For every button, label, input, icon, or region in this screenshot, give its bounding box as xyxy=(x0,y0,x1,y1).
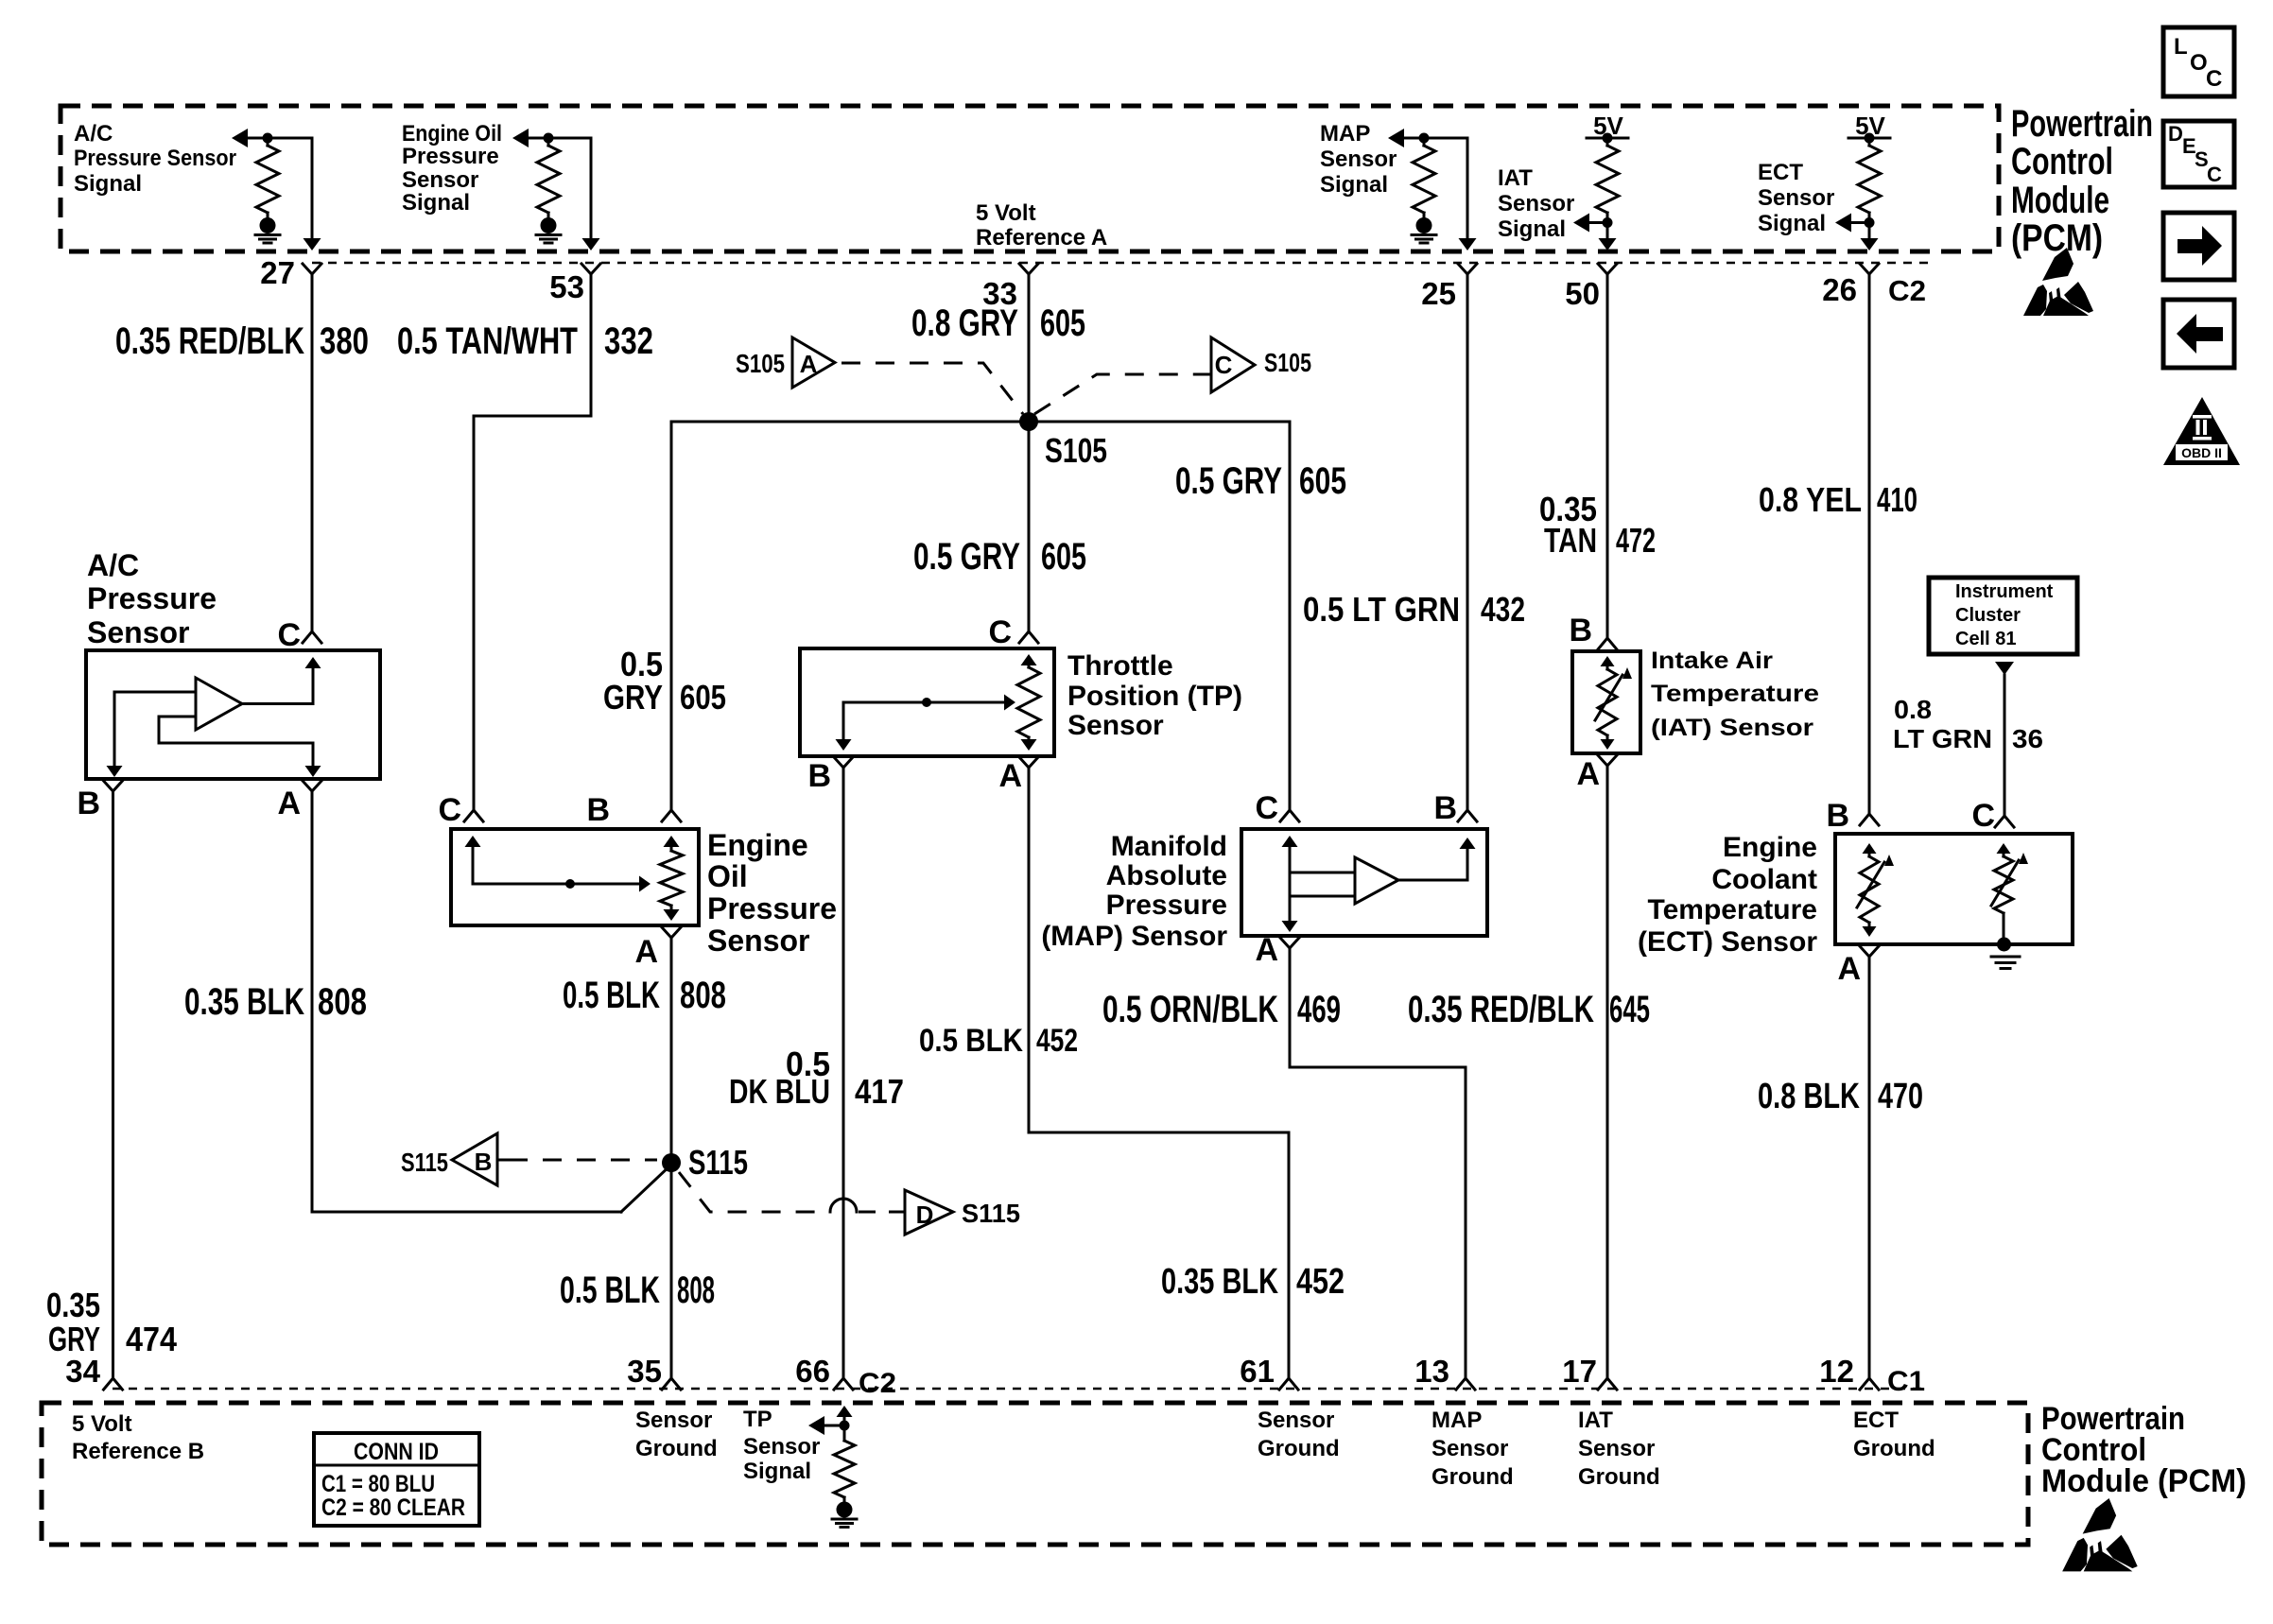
pin 61 xyxy=(1240,1354,1298,1390)
svg-text:Cluster: Cluster xyxy=(1955,605,2021,626)
svg-text:472: 472 xyxy=(1616,521,1656,560)
svg-text:0.5 LT GRN: 0.5 LT GRN xyxy=(1303,590,1460,629)
svg-text:Sensor: Sensor xyxy=(635,1408,712,1433)
svg-text:B: B xyxy=(1433,790,1457,826)
svg-text:0.35: 0.35 xyxy=(46,1286,100,1324)
TP sensor internals potentiometer xyxy=(836,654,1041,751)
PCM top dashed box xyxy=(61,106,1999,251)
svg-text:A: A xyxy=(634,934,658,970)
svg-text:A: A xyxy=(998,758,1022,794)
svg-text:C: C xyxy=(2207,163,2222,186)
svg-text:Temperature: Temperature xyxy=(1651,681,1819,707)
svg-text:IAT: IAT xyxy=(1578,1408,1613,1433)
wire 469 MAP A to pin13 xyxy=(1290,949,1466,1378)
IAT sensor box xyxy=(1572,651,1640,753)
IAT pull-up resistor xyxy=(1596,138,1619,239)
svg-text:S115: S115 xyxy=(962,1199,1020,1228)
svg-text:A/C: A/C xyxy=(74,121,113,147)
label Powertrain Control Module (PCM) bottom xyxy=(2041,1401,2247,1499)
svg-text:C2 = 80 CLEAR: C2 = 80 CLEAR xyxy=(321,1494,465,1521)
label 0.5 LT GRN 432 xyxy=(1303,590,1525,629)
wire 808 A/C A to splice S115 xyxy=(312,791,671,1212)
svg-text:Control: Control xyxy=(2011,141,2113,182)
svg-text:(PCM): (PCM) xyxy=(2011,217,2103,259)
svg-text:Sensor: Sensor xyxy=(1498,191,1574,216)
label 0.5 BLK 808 upper xyxy=(563,975,726,1016)
svg-text:(ECT) Sensor: (ECT) Sensor xyxy=(1638,926,1817,958)
svg-text:Engine: Engine xyxy=(707,828,808,862)
svg-text:0.8 GRY: 0.8 GRY xyxy=(911,302,1018,344)
wire S105 branch to MAP C xyxy=(1029,422,1290,810)
svg-text:417: 417 xyxy=(855,1072,904,1111)
pin A A/C sensor xyxy=(277,781,321,821)
svg-text:C: C xyxy=(1255,790,1278,826)
svg-text:Coolant: Coolant xyxy=(1711,864,1817,895)
svg-text:OBD II: OBD II xyxy=(2181,445,2222,460)
pin 35 xyxy=(627,1354,681,1390)
pin A MAP sensor xyxy=(1255,932,1299,968)
pin C engine oil sensor xyxy=(438,792,483,828)
wire 470 ECT A to pin12 xyxy=(1868,958,1871,1378)
engine oil sensor internals potentiometer xyxy=(465,836,684,921)
svg-text:(MAP) Sensor: (MAP) Sensor xyxy=(1041,921,1227,952)
pin 17 xyxy=(1562,1354,1617,1390)
label MAP Sensor Ground xyxy=(1431,1408,1514,1490)
label IAT Sensor Signal xyxy=(1498,165,1574,242)
label 0.8 LT GRN 36 xyxy=(1893,695,2043,753)
back arrow icon xyxy=(2163,300,2234,368)
label ECT Sensor Signal xyxy=(1758,160,1834,236)
wire 417 TP B to pin66 xyxy=(842,769,845,1378)
svg-text:432: 432 xyxy=(1481,590,1525,629)
svg-text:B: B xyxy=(77,786,100,821)
pin C ECT sensor xyxy=(1971,798,2014,834)
svg-text:66: 66 xyxy=(795,1354,830,1389)
label Sensor Ground pin61 xyxy=(1258,1408,1340,1461)
svg-text:Instrument: Instrument xyxy=(1955,581,2054,602)
svg-text:474: 474 xyxy=(126,1320,177,1358)
S115 reference triangle D xyxy=(679,1172,1020,1235)
svg-text:5 Volt: 5 Volt xyxy=(976,200,1036,226)
svg-text:A: A xyxy=(277,786,301,821)
svg-text:27: 27 xyxy=(260,255,295,290)
svg-text:605: 605 xyxy=(1041,536,1086,578)
svg-text:Sensor: Sensor xyxy=(743,1434,820,1460)
ESD symbol bottom xyxy=(2062,1498,2138,1571)
svg-text:Pressure Sensor: Pressure Sensor xyxy=(74,146,236,171)
svg-text:B: B xyxy=(807,758,831,794)
svg-text:C: C xyxy=(1971,798,1995,834)
top connector row dotted line xyxy=(312,262,1929,265)
label 0.5 DK BLU 417 xyxy=(729,1045,904,1111)
svg-text:380: 380 xyxy=(320,320,369,362)
svg-text:C1: C1 xyxy=(1887,1366,1925,1397)
A/C pressure signal resistor xyxy=(232,129,312,217)
label Manifold Absolute Pressure (MAP) Sensor xyxy=(1041,831,1227,952)
label Engine Oil Pressure Sensor Signal xyxy=(402,121,502,216)
svg-text:0.5 TAN/WHT: 0.5 TAN/WHT xyxy=(397,320,578,362)
label TP Sensor Signal xyxy=(743,1407,820,1484)
svg-text:D: D xyxy=(916,1201,934,1229)
svg-text:0.5 GRY: 0.5 GRY xyxy=(1175,460,1282,502)
svg-text:O: O xyxy=(2190,50,2208,76)
svg-text:Sensor: Sensor xyxy=(1320,147,1397,172)
TP sensor signal resistor to ground xyxy=(808,1406,855,1502)
bottom connector row dotted line xyxy=(113,1388,1929,1391)
wire S105 branch to engine oil B xyxy=(671,422,1029,810)
svg-text:34: 34 xyxy=(65,1354,100,1389)
label 0.5 BLK 808 lower xyxy=(560,1270,715,1311)
label 0.8 YEL 410 xyxy=(1759,480,1917,519)
label A/C Pressure Sensor xyxy=(87,548,217,649)
OBD II icon xyxy=(2163,397,2240,465)
label 5 Volt Reference B xyxy=(72,1411,204,1464)
svg-text:Module: Module xyxy=(2011,180,2109,221)
svg-text:Signal: Signal xyxy=(1758,211,1826,236)
wire pin27 drop inside PCM xyxy=(304,138,321,251)
svg-text:B: B xyxy=(1826,798,1849,834)
label MAP Sensor Signal xyxy=(1320,121,1397,198)
LOC icon xyxy=(2163,27,2234,96)
label IAT Sensor Ground xyxy=(1578,1408,1660,1490)
S105 reference triangle C xyxy=(1034,337,1311,414)
svg-text:808: 808 xyxy=(677,1270,715,1311)
label Powertrain Control Module (PCM) top xyxy=(2011,103,2153,259)
svg-text:Powertrain: Powertrain xyxy=(2011,103,2153,145)
svg-text:A: A xyxy=(1837,951,1861,987)
svg-text:B: B xyxy=(1569,613,1592,648)
svg-text:A: A xyxy=(800,350,818,378)
wire pin25 drop inside PCM xyxy=(1459,138,1477,251)
ECT pull-up resistor xyxy=(1858,138,1881,239)
svg-text:Signal: Signal xyxy=(1498,216,1566,242)
svg-text:0.35 RED/BLK: 0.35 RED/BLK xyxy=(1408,989,1594,1030)
ECT signal junction and arrow xyxy=(1835,214,1879,251)
pin 25 xyxy=(1421,264,1477,311)
svg-text:DK BLU: DK BLU xyxy=(729,1072,830,1111)
svg-text:C: C xyxy=(438,792,461,828)
splice S105 xyxy=(1019,412,1107,470)
label Engine Coolant Temperature (ECT) Sensor xyxy=(1638,832,1817,958)
svg-text:Module (PCM): Module (PCM) xyxy=(2041,1463,2247,1499)
MAP sensor internals amplifier xyxy=(1282,836,1476,932)
pin 34 xyxy=(65,1354,122,1390)
label Throttle Position (TP) Sensor xyxy=(1067,650,1242,741)
svg-text:Pressure: Pressure xyxy=(402,144,499,169)
ECT 5V supply xyxy=(1848,112,1890,144)
ground engine oil resistor xyxy=(536,217,561,243)
wire pin53 drop inside PCM xyxy=(582,138,600,251)
svg-text:A: A xyxy=(1255,932,1278,968)
svg-text:C2: C2 xyxy=(1888,274,1926,307)
label 0.5 GRY 605 engine oil branch xyxy=(603,645,726,717)
label 0.5 ORN/BLK 469 xyxy=(1102,989,1341,1030)
svg-text:Pressure: Pressure xyxy=(87,581,217,615)
svg-text:Pressure: Pressure xyxy=(1106,890,1227,921)
pin 66 connector C2 xyxy=(795,1354,896,1399)
label ECT Ground xyxy=(1853,1408,1935,1461)
svg-text:Absolute: Absolute xyxy=(1106,860,1227,891)
svg-text:Sensor: Sensor xyxy=(1758,185,1834,211)
svg-text:C: C xyxy=(2206,66,2222,92)
svg-text:25: 25 xyxy=(1421,276,1456,311)
svg-text:Sensor: Sensor xyxy=(87,615,189,649)
svg-text:0.5 BLK: 0.5 BLK xyxy=(563,975,660,1016)
ECT thermistor to gauge xyxy=(1991,843,2028,940)
wire 605 pin33 to S105 to TP sensor C xyxy=(1028,274,1031,631)
ESD symbol top xyxy=(2023,248,2093,316)
svg-text:Intake Air: Intake Air xyxy=(1651,648,1773,674)
svg-text:Pressure: Pressure xyxy=(707,891,837,925)
pin 33 xyxy=(982,264,1038,311)
svg-text:Sensor: Sensor xyxy=(1067,710,1164,741)
label Intake Air Temperature (IAT) Sensor xyxy=(1651,648,1819,741)
pin A ECT sensor xyxy=(1837,946,1879,987)
svg-text:17: 17 xyxy=(1562,1354,1597,1389)
svg-text:MAP: MAP xyxy=(1431,1408,1482,1433)
svg-text:Oil: Oil xyxy=(707,859,748,893)
MAP sensor box xyxy=(1241,829,1487,936)
svg-text:S115: S115 xyxy=(688,1143,748,1182)
svg-text:808: 808 xyxy=(680,975,726,1016)
wire 474 A/C B to pin34 xyxy=(112,791,114,1378)
svg-text:(IAT) Sensor: (IAT) Sensor xyxy=(1651,715,1813,741)
wire 410 pin26 to ECT B xyxy=(1868,274,1871,814)
svg-text:12: 12 xyxy=(1819,1354,1854,1389)
pin 50 xyxy=(1565,264,1617,311)
svg-text:MAP: MAP xyxy=(1320,121,1370,147)
svg-text:Temperature: Temperature xyxy=(1647,894,1817,925)
svg-text:Manifold: Manifold xyxy=(1111,831,1227,862)
svg-text:Signal: Signal xyxy=(74,171,142,197)
svg-text:Sensor: Sensor xyxy=(1578,1436,1655,1461)
label Sensor Ground pin35 xyxy=(635,1408,718,1461)
A/C pressure sensor box xyxy=(86,650,380,779)
forward arrow icon xyxy=(2163,213,2234,280)
wire 380 pin27 to A/C sensor C xyxy=(311,274,314,631)
label 0.8 GRY 605 xyxy=(911,302,1085,344)
svg-text:Ground: Ground xyxy=(635,1436,718,1461)
pin C MAP sensor xyxy=(1255,790,1299,826)
label A/C Pressure Sensor Signal xyxy=(74,121,236,197)
svg-text:Throttle: Throttle xyxy=(1067,650,1173,682)
svg-text:A: A xyxy=(1576,756,1600,792)
pin A engine oil sensor xyxy=(634,927,681,970)
svg-text:470: 470 xyxy=(1878,1077,1923,1116)
pin B MAP sensor xyxy=(1433,790,1477,826)
S115 reference triangle B xyxy=(401,1133,657,1185)
svg-text:GRY: GRY xyxy=(603,678,663,717)
label 0.35 BLK 808 xyxy=(184,981,367,1023)
S105 reference triangle A xyxy=(736,337,1023,414)
wire 645 IAT A to pin17 xyxy=(1606,767,1609,1378)
svg-text:ECT: ECT xyxy=(1853,1408,1899,1433)
engine oil pressure signal resistor xyxy=(512,129,591,217)
pin 53 xyxy=(549,264,600,304)
svg-text:26: 26 xyxy=(1822,272,1857,307)
svg-text:452: 452 xyxy=(1296,1262,1345,1302)
svg-text:0.5 BLK: 0.5 BLK xyxy=(919,1023,1023,1059)
splice S115 xyxy=(662,1143,748,1182)
svg-text:IAT: IAT xyxy=(1498,165,1533,191)
svg-text:LT GRN: LT GRN xyxy=(1893,724,1992,753)
label Engine Oil Pressure Sensor xyxy=(707,828,837,958)
label 0.35 BLK 452 xyxy=(1161,1262,1345,1302)
svg-text:452: 452 xyxy=(1036,1023,1078,1059)
svg-text:0.5 BLK: 0.5 BLK xyxy=(560,1270,660,1311)
svg-text:0.35 RED/BLK: 0.35 RED/BLK xyxy=(115,320,304,362)
wire 472 pin50 to IAT B xyxy=(1606,274,1609,638)
DESC icon xyxy=(2163,121,2234,187)
label 0.5 BLK 452 xyxy=(919,1023,1078,1059)
svg-text:B: B xyxy=(586,792,610,828)
svg-text:S105: S105 xyxy=(1264,348,1311,377)
ECT sensor box xyxy=(1835,834,2073,944)
PCM bottom dashed box xyxy=(42,1403,2028,1545)
label 0.35 TAN 472 xyxy=(1539,490,1656,560)
pin 26 connector C2 xyxy=(1822,264,1926,307)
svg-text:Cell 81: Cell 81 xyxy=(1955,629,2016,649)
ECT thermistor to PCM xyxy=(1857,843,1894,937)
svg-text:645: 645 xyxy=(1609,989,1650,1030)
label 5 Volt Reference A xyxy=(976,200,1107,251)
svg-text:C: C xyxy=(1215,351,1233,379)
IAT 5V supply xyxy=(1587,112,1628,144)
svg-text:Signal: Signal xyxy=(743,1459,811,1484)
svg-text:605: 605 xyxy=(1299,460,1346,502)
label 0.35 GRY 474 xyxy=(46,1286,177,1358)
svg-text:469: 469 xyxy=(1297,989,1341,1030)
svg-text:Sensor: Sensor xyxy=(707,924,809,958)
svg-text:ECT: ECT xyxy=(1758,160,1803,185)
MAP signal resistor xyxy=(1388,129,1467,217)
svg-text:C1 = 80 BLU: C1 = 80 BLU xyxy=(321,1471,435,1497)
svg-text:C: C xyxy=(277,617,301,653)
svg-text:GRY: GRY xyxy=(48,1320,100,1358)
svg-text:Reference B: Reference B xyxy=(72,1439,204,1464)
svg-text:Reference A: Reference A xyxy=(976,225,1107,251)
svg-text:332: 332 xyxy=(604,320,653,362)
svg-text:C: C xyxy=(988,614,1012,650)
svg-text:Ground: Ground xyxy=(1431,1464,1514,1490)
ground ECT sensor internal xyxy=(1991,938,2020,969)
svg-text:13: 13 xyxy=(1414,1354,1449,1389)
svg-text:0.5 ORN/BLK: 0.5 ORN/BLK xyxy=(1102,989,1278,1030)
svg-text:Ground: Ground xyxy=(1258,1436,1340,1461)
svg-text:A/C: A/C xyxy=(87,548,139,582)
svg-text:0.35 BLK: 0.35 BLK xyxy=(1161,1262,1278,1302)
svg-text:Sensor: Sensor xyxy=(1431,1436,1508,1461)
svg-text:C2: C2 xyxy=(859,1368,896,1399)
svg-text:Ground: Ground xyxy=(1853,1436,1935,1461)
IAT signal junction and arrow xyxy=(1573,214,1617,251)
pin C TP sensor xyxy=(988,614,1038,650)
pin C A/C sensor xyxy=(277,617,321,653)
svg-text:Engine: Engine xyxy=(1723,832,1817,863)
svg-text:B: B xyxy=(475,1148,493,1176)
pin B TP sensor xyxy=(807,757,853,794)
svg-text:Sensor: Sensor xyxy=(402,167,478,193)
ground A/C resistor xyxy=(255,217,280,243)
wire 36 instrument cluster to ECT C xyxy=(1995,662,2014,816)
pin 27 xyxy=(260,255,321,290)
CONN ID table xyxy=(314,1433,479,1526)
svg-text:D: D xyxy=(2168,122,2183,146)
label 0.8 BLK 470 xyxy=(1758,1077,1923,1116)
label 0.5 GRY 605 MAP branch xyxy=(1175,460,1346,502)
svg-text:35: 35 xyxy=(627,1354,662,1389)
label 0.5 TAN/WHT 332 xyxy=(397,320,653,362)
svg-text:0.8 BLK: 0.8 BLK xyxy=(1758,1077,1860,1116)
wire 332 pin53 to engine oil C xyxy=(474,274,591,810)
throttle position sensor box xyxy=(800,648,1054,756)
ground TP sensor signal xyxy=(832,1502,857,1528)
pin A IAT sensor xyxy=(1576,755,1617,792)
pin B IAT sensor xyxy=(1569,613,1617,649)
svg-text:Ground: Ground xyxy=(1578,1464,1660,1490)
svg-text:CONN ID: CONN ID xyxy=(354,1439,439,1465)
svg-text:Signal: Signal xyxy=(1320,172,1388,198)
svg-text:Engine Oil: Engine Oil xyxy=(402,121,502,147)
svg-text:Signal: Signal xyxy=(402,190,470,216)
wire 452 TP A to pin61 xyxy=(1029,769,1289,1378)
ground MAP resistor xyxy=(1412,217,1436,243)
IAT sensor thermistor xyxy=(1595,656,1632,750)
wire 808 engine oil A to S115 to pin35 xyxy=(670,939,673,1378)
instrument cluster box xyxy=(1929,578,2077,654)
svg-text:36: 36 xyxy=(2012,724,2043,753)
svg-text:605: 605 xyxy=(1040,302,1085,344)
svg-text:808: 808 xyxy=(318,981,367,1023)
svg-text:0.35 BLK: 0.35 BLK xyxy=(184,981,304,1023)
svg-text:61: 61 xyxy=(1240,1354,1275,1389)
wire 432 pin25 to MAP B xyxy=(1466,274,1469,810)
svg-text:5 Volt: 5 Volt xyxy=(72,1411,132,1437)
pin B ECT sensor xyxy=(1826,798,1879,834)
A/C sensor internals amplifier xyxy=(107,657,321,777)
svg-text:0.5 GRY: 0.5 GRY xyxy=(913,536,1020,578)
svg-text:S115: S115 xyxy=(401,1148,448,1177)
pin 12 connector C1 xyxy=(1819,1354,1925,1397)
svg-text:S105: S105 xyxy=(1045,431,1107,470)
pin B A/C sensor xyxy=(77,781,122,821)
pin A TP sensor xyxy=(998,757,1038,794)
svg-text:TAN: TAN xyxy=(1544,521,1597,560)
svg-text:Sensor: Sensor xyxy=(1258,1408,1334,1433)
svg-text:50: 50 xyxy=(1565,276,1600,311)
svg-text:0.8 YEL: 0.8 YEL xyxy=(1759,480,1862,519)
label 0.5 GRY 605 below S105 xyxy=(913,536,1086,578)
svg-text:53: 53 xyxy=(549,269,584,304)
label 0.35 RED/BLK 645 xyxy=(1408,989,1650,1030)
pin B engine oil sensor xyxy=(586,792,681,828)
svg-text:0.8: 0.8 xyxy=(1894,695,1932,724)
svg-text:605: 605 xyxy=(680,678,726,717)
engine oil pressure sensor box xyxy=(451,829,699,925)
svg-text:410: 410 xyxy=(1877,480,1917,519)
pin 13 xyxy=(1414,1354,1475,1390)
label 0.35 RED/BLK 380 xyxy=(115,320,369,362)
svg-text:S105: S105 xyxy=(736,349,785,378)
svg-text:L: L xyxy=(2174,34,2188,60)
svg-text:Position (TP): Position (TP) xyxy=(1067,681,1242,712)
svg-text:TP: TP xyxy=(743,1407,772,1432)
